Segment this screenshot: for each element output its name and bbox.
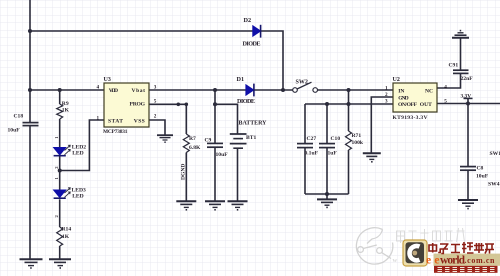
ground (C27 C10 R71 rail): [317, 194, 337, 207]
svg-text:C10: C10: [331, 136, 341, 142]
wire R9 to LED2: [59, 119, 61, 148]
watermark red banner: [434, 266, 498, 273]
wire C10 upper lead: [326, 104, 328, 144]
svg-text:world: world: [440, 255, 466, 267]
watermark ghost text blocks: [393, 228, 465, 264]
node rail C10: [325, 102, 329, 106]
ground (inverted, above C91): [452, 31, 469, 38]
svg-text:D2: D2: [244, 17, 252, 24]
svg-text:3: 3: [385, 98, 388, 104]
watermark ghost logo circle: [356, 228, 392, 264]
wire R71 lower lead: [348, 150, 350, 194]
wire top horizontal to D2 anode: [30, 30, 253, 32]
svg-text:R9: R9: [62, 101, 69, 107]
svg-text:DGND: DGND: [181, 164, 187, 180]
svg-text:R14: R14: [62, 227, 72, 233]
wire R71 upper lead: [348, 104, 350, 131]
svg-text:LED: LED: [72, 151, 84, 157]
svg-text:STAT: STAT: [108, 119, 123, 125]
node left rail / main wire: [28, 88, 32, 92]
svg-text:0.1uF: 0.1uF: [305, 151, 319, 157]
watermark chinese title 电子工程世界: [429, 242, 494, 254]
svg-text:10uF: 10uF: [216, 152, 229, 158]
LED LED3: [54, 188, 86, 218]
wire C10 lower lead: [326, 148, 328, 194]
wire left rail lower segment to ground: [29, 126, 31, 259]
wire main horizontal left section VDD: [30, 89, 104, 91]
svg-text:C27: C27: [307, 136, 317, 142]
svg-text:DIODE: DIODE: [243, 41, 261, 48]
wire C91 upper lead to inverted ground: [460, 38, 462, 70]
svg-text:BT1: BT1: [246, 135, 256, 141]
wire Vbat to D1 anode: [149, 89, 246, 91]
wire D2 cathode to corner and down to main wire: [261, 31, 283, 90]
wire R14 lower lead: [59, 246, 61, 259]
svg-text:D1: D1: [237, 76, 245, 83]
node R9 tap: [58, 88, 62, 92]
svg-text:SW4: SW4: [488, 182, 500, 188]
svg-text:C18: C18: [14, 114, 24, 120]
resistor R9: [57, 101, 70, 119]
wire U2 NC pin to C91: [437, 73, 461, 88]
svg-text:DIODE: DIODE: [237, 98, 255, 105]
IC U3 MCP73831: [97, 77, 157, 135]
wire left rail vertical x=30: [29, 0, 31, 122]
svg-text:U3: U3: [104, 77, 111, 83]
svg-text:SW2: SW2: [296, 80, 308, 86]
ground (C9 bottom): [205, 201, 225, 210]
node LED chain STAT junction: [58, 169, 62, 173]
svg-text:C91: C91: [449, 63, 459, 69]
wire 3.3V power stem: [467, 98, 469, 103]
capacitor C91: [449, 63, 474, 83]
node C9 tap: [213, 88, 217, 92]
IC U2 KT9193-3.3V: [385, 77, 447, 121]
wire C8 upper lead: [467, 104, 469, 167]
svg-text:PROG: PROG: [130, 102, 146, 108]
svg-text:LED: LED: [72, 194, 84, 200]
svg-text:w: w: [393, 257, 398, 264]
svg-text:1uF: 1uF: [328, 151, 338, 157]
capacitor C18: [8, 114, 39, 134]
svg-text:Vbat: Vbat: [132, 88, 146, 94]
wire U3 PROG to R7: [149, 103, 186, 105]
ground (U2 GND pin): [363, 153, 381, 162]
svg-text:1: 1: [97, 116, 100, 122]
svg-text:LED2: LED2: [72, 145, 87, 151]
svg-text:U2: U2: [393, 77, 400, 83]
wire C8 lower lead: [467, 170, 469, 200]
wire C9 lower lead: [214, 147, 216, 201]
wire LED3 to R14: [59, 199, 61, 227]
svg-text:6.8K: 6.8K: [189, 145, 201, 151]
wire C27 lower lead: [304, 148, 306, 194]
capacitor C10: [319, 136, 340, 157]
svg-text:GND: GND: [398, 95, 409, 101]
wire D1 cathode to SW2 left terminal: [254, 89, 293, 91]
capacitor C27: [297, 136, 319, 157]
power symbol 3.3V: [461, 93, 473, 99]
svg-text:R71: R71: [352, 133, 362, 139]
ground (U3 VSS): [157, 135, 173, 142]
svg-text:2: 2: [154, 114, 157, 120]
svg-text:100k: 100k: [352, 140, 364, 146]
svg-text:NC: NC: [425, 89, 433, 95]
wire C27 upper lead: [304, 104, 306, 144]
ground (R7 bottom): [176, 201, 196, 210]
wire U2 GND pin to ground: [371, 97, 393, 153]
wire ON/OFF rail to U2 pin3: [305, 103, 393, 105]
node PROG wire dot A: [177, 103, 181, 107]
wire U2 OUT to right edge: [437, 103, 500, 105]
svg-text:ON/OFF: ON/OFF: [398, 102, 418, 108]
svg-text:10uF: 10uF: [476, 174, 489, 180]
wire SW2 right terminal to U2 IN: [317, 89, 393, 91]
node ground rail C10: [325, 192, 329, 196]
svg-text:3.3V: 3.3V: [461, 93, 472, 99]
svg-text:.com.cn: .com.cn: [465, 256, 496, 265]
wire LED2 to LED3: [59, 156, 61, 190]
battery BT1: [230, 134, 247, 148]
watermark eeworld.com.cn text: [426, 255, 495, 267]
ground (left rail bottom): [20, 259, 43, 268]
watermark eeworld logo e-icon: [403, 240, 427, 266]
capacitor C8: [460, 166, 489, 180]
svg-text:SW1: SW1: [490, 151, 500, 157]
capacitor C9: [205, 138, 229, 159]
svg-text:LED3: LED3: [72, 188, 87, 194]
watermark tan band: [434, 254, 500, 266]
svg-text:5: 5: [154, 99, 157, 105]
switch SW2: [293, 80, 318, 93]
svg-text:R7: R7: [189, 136, 196, 142]
wire R7 upper lead: [185, 104, 187, 134]
svg-text:4: 4: [97, 85, 100, 91]
resistor R7: [183, 134, 201, 153]
wire C9 tap vertical: [214, 90, 216, 143]
svg-text:IN: IN: [398, 89, 404, 95]
node rail R71: [347, 102, 351, 106]
svg-text:C9: C9: [205, 138, 212, 144]
svg-text:KT9193-3.3V: KT9193-3.3V: [393, 115, 428, 121]
resistor R14: [57, 227, 72, 247]
svg-text:5: 5: [444, 98, 447, 104]
wire battery branch: [215, 104, 238, 134]
wire U3 VSS to ground: [149, 120, 165, 135]
svg-text:3: 3: [154, 85, 157, 91]
node 3.3V junction on OUT wire: [466, 102, 470, 106]
node PROG wire dot B: [185, 103, 189, 107]
svg-text:BATTERY: BATTERY: [239, 121, 268, 127]
wire battery lower lead: [237, 148, 239, 201]
node battery branch: [213, 102, 217, 106]
svg-text:1: 1: [385, 85, 388, 91]
wire U3 STAT routing to LED chain: [60, 120, 104, 171]
diode D1: [237, 76, 256, 105]
svg-text:OUT: OUT: [420, 102, 432, 108]
node top-left corner junction: [28, 29, 32, 33]
wire R7 lower lead: [185, 153, 187, 202]
svg-text:2: 2: [385, 92, 388, 98]
svg-text:VDD: VDD: [109, 88, 118, 94]
svg-text:1K: 1K: [62, 108, 70, 114]
wire tap from main down to ON/OFF rail: [348, 90, 350, 104]
wire R9 upper lead: [59, 90, 61, 104]
resistor R71: [346, 131, 364, 150]
ground (BT1 bottom): [228, 201, 248, 210]
svg-text:C8: C8: [477, 166, 484, 172]
node ON/OFF tap on main: [347, 88, 351, 92]
svg-text:VSS: VSS: [134, 119, 145, 125]
svg-text:1K: 1K: [62, 234, 70, 240]
svg-text:22nF: 22nF: [461, 76, 474, 82]
ground (C8 bottom): [458, 200, 478, 209]
ground (R14 bottom): [49, 259, 71, 268]
wire ground rail under C27 C10 R71: [305, 193, 349, 195]
svg-text:10uF: 10uF: [8, 128, 21, 134]
diode D2: [243, 17, 261, 48]
svg-text:MCP73831: MCP73831: [103, 129, 128, 135]
node D2 drop joins main: [281, 88, 285, 92]
LED LED2: [54, 136, 87, 180]
svg-text:4: 4: [444, 84, 447, 90]
